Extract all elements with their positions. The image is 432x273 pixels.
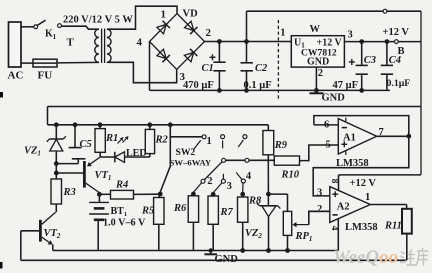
svg-text:470 μF: 470 μF (183, 80, 214, 91)
svg-text:R5: R5 (141, 205, 154, 216)
svg-text:1: 1 (161, 9, 167, 21)
svg-text:AC: AC (8, 70, 24, 82)
svg-text:R8: R8 (248, 195, 262, 206)
svg-text:VD: VD (183, 9, 199, 20)
svg-text:2: 2 (317, 204, 322, 215)
svg-text:FU: FU (38, 70, 53, 82)
svg-text:C1: C1 (202, 63, 214, 74)
svg-text:A1: A1 (343, 133, 356, 144)
svg-text:R10: R10 (281, 170, 300, 181)
svg-text:C5: C5 (80, 139, 92, 150)
svg-text:LM358: LM358 (345, 222, 378, 233)
svg-text:3: 3 (317, 187, 322, 198)
svg-text:0.1μF: 0.1μF (387, 78, 411, 89)
svg-text:1: 1 (207, 136, 212, 147)
svg-text:R6: R6 (173, 203, 187, 214)
svg-text:6: 6 (324, 119, 329, 130)
svg-text:WeeQoo: WeeQoo (333, 247, 398, 268)
svg-text:GND: GND (307, 57, 329, 68)
svg-text:LM358: LM358 (336, 158, 369, 169)
svg-text:1: 1 (53, 33, 57, 41)
svg-text:5: 5 (326, 139, 331, 150)
svg-text:GND: GND (215, 254, 239, 265)
svg-text:1: 1 (280, 28, 285, 39)
svg-text:R7: R7 (220, 207, 234, 218)
svg-text:A2: A2 (337, 201, 350, 212)
svg-text:W: W (310, 24, 321, 35)
svg-text:C3: C3 (364, 55, 376, 66)
svg-text:4: 4 (329, 226, 339, 231)
svg-text:2: 2 (206, 27, 212, 39)
svg-text:R11: R11 (384, 220, 402, 231)
svg-text:7: 7 (379, 127, 384, 138)
svg-text:R2: R2 (155, 134, 169, 145)
svg-text:T: T (67, 37, 75, 49)
svg-text:3: 3 (227, 181, 232, 192)
svg-text:47 μF: 47 μF (333, 80, 359, 91)
svg-text:+12 V: +12 V (383, 27, 410, 38)
svg-text:2: 2 (318, 68, 323, 79)
svg-text:SW–6WAY: SW–6WAY (170, 157, 212, 167)
svg-text:R1: R1 (105, 133, 118, 144)
svg-text:0.1 μF: 0.1 μF (244, 80, 272, 91)
svg-text:2: 2 (207, 176, 212, 187)
svg-text:C4: C4 (389, 55, 401, 66)
svg-text:220 V/12 V 5 W: 220 V/12 V 5 W (63, 15, 133, 26)
svg-text:R3: R3 (63, 187, 76, 198)
svg-text:GND: GND (322, 93, 346, 104)
svg-text:R9: R9 (274, 140, 288, 151)
svg-text:SW2: SW2 (176, 147, 196, 158)
svg-text:C2: C2 (255, 63, 268, 74)
svg-text:4: 4 (137, 37, 143, 49)
svg-text:1: 1 (365, 192, 370, 203)
svg-text:8: 8 (329, 179, 339, 184)
svg-text:3: 3 (348, 30, 353, 41)
svg-text:+12 V: +12 V (350, 178, 377, 189)
svg-text:4: 4 (246, 171, 252, 182)
svg-text:1.0 V–6 V: 1.0 V–6 V (103, 217, 146, 228)
svg-text:R4: R4 (115, 179, 128, 190)
